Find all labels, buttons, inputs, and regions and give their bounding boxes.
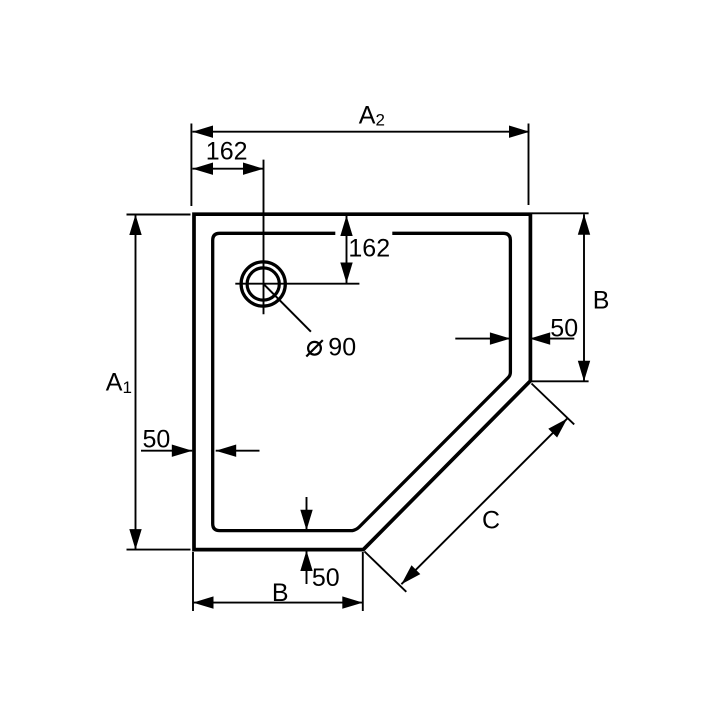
dim A1 extension line bottom (127, 549, 191, 551)
dim C line (401, 419, 567, 585)
dim A1 arrow bottom (129, 529, 141, 550)
dim B right arrow top (578, 214, 590, 235)
dim C extension line upper (532, 384, 575, 425)
dim A2 extension line left (190, 124, 192, 207)
dim 50 left line inside (216, 450, 260, 452)
dim 162 vertical arrow top (340, 216, 352, 237)
tray outer outline (pentagon) (194, 214, 530, 549)
dim 50 right line inside (455, 338, 510, 340)
dim 162 top line (193, 168, 264, 170)
dim B right arrow bottom (578, 361, 590, 382)
dim 50 bottom line upper (306, 497, 308, 530)
dim C arrow upper (548, 419, 567, 438)
dim A2 arrow right (509, 126, 530, 138)
dim B right extension line bottom (531, 380, 589, 382)
dim A1 arrow top (129, 215, 141, 236)
dim B bottom extension line right (362, 552, 364, 611)
svg-text:50: 50 (312, 564, 340, 592)
dim B right line (583, 214, 585, 381)
dim A1 line (135, 215, 137, 550)
drain center line vertical (263, 160, 265, 315)
svg-text:162: 162 (206, 137, 248, 165)
dim 162 vertical line (346, 216, 348, 284)
drain center line horizontal (235, 283, 359, 285)
dim 162 vertical arrow bottom (340, 263, 352, 284)
dim 162 top arrow left (193, 163, 214, 175)
dim A2 arrow left (193, 126, 214, 138)
dim 50 left arrow at outer wall (172, 445, 193, 457)
dim 162 top arrow right (243, 163, 264, 175)
svg-text:90: 90 (328, 334, 356, 362)
svg-text:C: C (482, 507, 500, 535)
dim A1 extension line top (127, 214, 191, 216)
dim 50 left line outside (141, 450, 192, 452)
dim 50 right line outside (530, 338, 575, 340)
svg-text:162: 162 (348, 235, 390, 263)
svg-text:50: 50 (143, 426, 171, 454)
dim B bottom extension line left (192, 552, 194, 611)
drain leader line (264, 284, 311, 331)
dim C arrow lower (401, 565, 420, 584)
dim B right extension line top (532, 212, 589, 214)
dim 50 bottom arrow at outer wall (300, 551, 312, 572)
dim B bottom arrow right (342, 596, 363, 608)
svg-text:50: 50 (550, 314, 578, 342)
dim B bottom line (193, 602, 363, 604)
gap in inner top edge (line break for dim 162) (335, 228, 392, 239)
dim 50 right arrow at inner wall (490, 332, 511, 344)
svg-text:B: B (593, 286, 610, 314)
diameter symbol (306, 340, 323, 356)
tray inner outline (rounded, cut corner) (213, 233, 511, 530)
dim 50 right arrow at outer wall (530, 332, 551, 344)
dim 50 bottom arrow at inner wall (300, 510, 312, 531)
dim 50 left arrow at inner wall (216, 445, 237, 457)
dim A2 line (193, 131, 530, 133)
drain outer circle (241, 262, 285, 306)
dim C extension line lower (365, 552, 407, 592)
drain inner circle (247, 268, 279, 300)
dim A2 extension line right (528, 124, 530, 206)
dim 50 bottom line lower (306, 551, 308, 585)
svg-text:B: B (272, 579, 289, 607)
dim B bottom arrow left (193, 596, 214, 608)
